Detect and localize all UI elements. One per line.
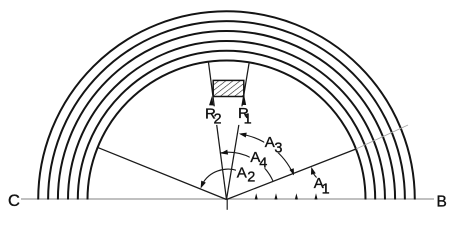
label A4 (250, 149, 270, 172)
faint extension of up-right line through arcs (356, 125, 408, 149)
arrowhead of A2 arc (198, 181, 206, 190)
svg-text:B: B (437, 194, 447, 211)
baseline C-B (21, 198, 434, 200)
arc 2 (78, 51, 375, 200)
svg-text:3: 3 (274, 140, 282, 156)
leader arrow for A1 (312, 171, 316, 177)
svg-text:1: 1 (244, 112, 252, 128)
arc 5 (48, 21, 405, 199)
arrowhead of A3 arc upper end (238, 131, 246, 137)
svg-text:A: A (265, 134, 275, 151)
angle arc A4 (220, 152, 273, 181)
svg-text:C: C (8, 192, 20, 210)
small arrow 2 on baseline (274, 193, 277, 199)
radius line R1 (227, 62, 250, 199)
arc 4 (58, 31, 395, 200)
arrowhead of A3 arc lower end (289, 168, 296, 176)
small arrow 4 on baseline (314, 193, 317, 199)
svg-text:1: 1 (322, 182, 330, 198)
arrowhead R1 (to rectangle bottom-right corner) (242, 95, 247, 105)
svg-text:A: A (237, 164, 247, 181)
angle arc A2 (202, 169, 237, 184)
arc 3 (68, 41, 385, 200)
label A2 (236, 164, 257, 185)
angle arc A3 (240, 134, 293, 175)
svg-text:4: 4 (259, 156, 267, 172)
hatched rectangle (213, 80, 244, 96)
svg-text:2: 2 (247, 169, 255, 185)
radial line up-right (227, 149, 357, 200)
center tick below baseline (226, 200, 228, 210)
small arrow 1 on baseline (255, 193, 258, 199)
small arrow 3 on baseline (295, 193, 298, 199)
svg-text:2: 2 (214, 112, 222, 128)
label R1 (237, 105, 252, 128)
arrowhead of A4 arc (220, 150, 228, 156)
label A3 (264, 134, 283, 157)
radial line up-left (98, 147, 227, 199)
arc 1 (innermost semicircle) (88, 61, 366, 200)
label A1 (314, 175, 330, 198)
arc 6 (outermost semicircle) (38, 11, 415, 199)
radius line R2 (208, 62, 226, 200)
arrowhead R2 (to rectangle bottom-left corner) (209, 96, 214, 106)
label R2 (204, 105, 222, 127)
